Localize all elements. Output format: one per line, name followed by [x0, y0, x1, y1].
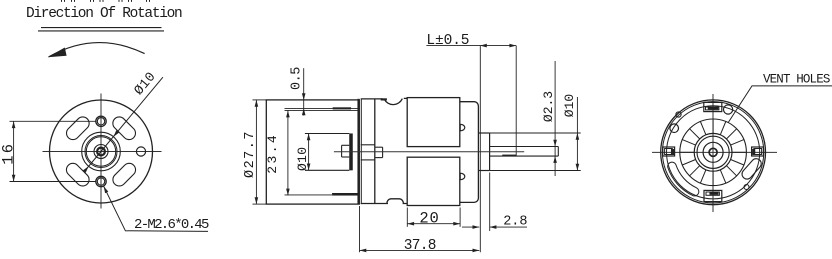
leader 2-M2.6 line — [104, 186, 208, 231]
title underline (double rule) — [41, 27, 162, 29]
dim 37.8 ext left — [359, 206, 361, 252]
vent slot SW — [64, 161, 92, 189]
motor front boss bottom — [361, 159, 375, 161]
side view centerline — [334, 151, 524, 153]
dim 23.4 line — [287, 111, 289, 196]
brush cap lower — [460, 173, 465, 180]
vent slot NE — [110, 114, 138, 142]
motor can front face — [374, 99, 376, 204]
dim 23.4 arrow up — [286, 111, 290, 118]
rear rim circle — [662, 102, 763, 203]
dim phi2.3 arrow lower — [553, 156, 557, 163]
dim phi10 shaft ext top — [490, 132, 581, 134]
svg-text:2.8: 2.8 — [503, 214, 527, 229]
leader 2-M2.6 arrow — [104, 186, 109, 193]
rear hole NW — [670, 124, 679, 133]
svg-text:VENT HOLES: VENT HOLES — [763, 73, 830, 87]
dim 20 line — [407, 223, 460, 225]
dim phi27.7 arrow up — [255, 100, 259, 107]
front housing outer circle (dia 27.7) — [50, 100, 153, 203]
shaft flat end / L extension — [515, 46, 517, 157]
direction-of-rotation arc arrow — [49, 43, 145, 57]
dim 0.5 line — [303, 68, 305, 115]
front bearing circle — [94, 145, 108, 159]
crimp tab W — [663, 147, 675, 156]
crimp tab S — [704, 190, 722, 201]
rear hole NE — [724, 105, 733, 114]
dim 23.4 arrow down — [286, 189, 290, 196]
motor front boss top — [361, 144, 375, 146]
gearbox housing outline — [266, 100, 359, 204]
motor flange line — [360, 99, 362, 204]
dim 2.8 arrow right — [490, 225, 497, 229]
dim phi10 arrow SW — [83, 166, 89, 172]
svg-text:Ø10: Ø10 — [295, 147, 310, 171]
dim phi10 gearbox arrow up — [307, 134, 311, 141]
end face extension line — [479, 46, 481, 253]
dim phi10 shaft arrow down — [576, 164, 580, 171]
dim 2.8 line left — [462, 226, 479, 228]
dim 0.5 arrow upper — [302, 93, 306, 100]
rear center hole — [709, 148, 717, 156]
crimp tab N — [704, 102, 722, 111]
rear notch NW — [676, 112, 681, 117]
dim phi10 shaft arrow up — [576, 133, 580, 140]
gearbox tab upper — [333, 107, 351, 109]
can neck bottom edge — [361, 203, 388, 205]
shaft bottom edge — [490, 155, 559, 157]
dim phi10 gearbox line — [308, 134, 310, 171]
svg-text:2-M2.6*0.45: 2-M2.6*0.45 — [134, 217, 209, 233]
dim L+-0.5 line — [426, 45, 516, 47]
dim 2.8 arrow left — [473, 225, 480, 229]
dim 16 arrow down — [12, 175, 16, 182]
rear hub ring inner — [697, 136, 729, 168]
can bottom notch — [387, 199, 407, 204]
mounting hole M2.6 top inner — [97, 118, 104, 125]
dim phi2.3 arrow upper — [553, 140, 557, 147]
svg-text:0.5: 0.5 — [290, 67, 305, 90]
vent slot NW — [64, 114, 92, 142]
shaft flat (thick) — [502, 155, 516, 157]
rear notch SE — [744, 185, 749, 190]
dim L+-0.5 arrow right — [509, 44, 516, 48]
svg-text:Ø10: Ø10 — [132, 70, 160, 99]
gearbox cover line lower — [285, 194, 360, 196]
dim phi10 shaft ext bottom — [490, 170, 581, 172]
dim 20 ext right — [459, 208, 461, 227]
internal bearing stub — [341, 145, 343, 157]
can top edge short — [404, 97, 407, 99]
end bell outline — [460, 102, 479, 203]
rear spoke ring — [680, 119, 747, 186]
dim phi2.3 line — [554, 61, 556, 176]
svg-text:Ø2.3: Ø2.3 — [541, 91, 556, 122]
svg-text:L±0.5: L±0.5 — [426, 33, 469, 49]
dim phi27.7 line — [255, 100, 257, 204]
dim phi27.7 ext bottom — [253, 203, 267, 205]
vent slot SE — [110, 161, 138, 189]
svg-text:20: 20 — [419, 209, 439, 227]
rear boss face — [489, 133, 491, 171]
dim phi10 arrow NE — [113, 130, 119, 136]
dim 2.8 line right — [490, 226, 527, 228]
rear boss top — [478, 132, 489, 134]
rear boss bottom — [478, 170, 489, 172]
svg-text:Ø27.7: Ø27.7 — [243, 130, 258, 178]
rear rim inner circle — [667, 106, 760, 199]
front view vertical centerline — [100, 94, 102, 209]
dim 37.8 arrow right — [473, 249, 480, 253]
dim 20 arrow right — [453, 222, 460, 226]
internal boss face (thick) — [349, 134, 352, 171]
can top notch — [384, 99, 402, 105]
dim phi10 gearbox arrow down — [307, 164, 311, 171]
gearbox cover line upper a — [285, 107, 360, 109]
brush cap upper — [460, 124, 465, 131]
clipped text remnants above title — [61, 0, 63, 2]
vent holes leader — [728, 86, 832, 123]
output shaft circle dia 2.3 — [97, 148, 105, 156]
dim 37.8 line — [360, 249, 480, 251]
gearbox cover line lower b — [332, 192, 359, 194]
dim 37.8 arrow left — [360, 249, 367, 253]
svg-text:23.4: 23.4 — [265, 133, 280, 174]
dim 16 arrow up — [12, 121, 16, 128]
internal boss bottom edge — [305, 169, 349, 171]
svg-text:Ø10: Ø10 — [562, 94, 577, 117]
rear bearing circle — [703, 142, 723, 162]
dim phi10 shaft line — [576, 97, 578, 171]
shaft tip — [557, 147, 559, 157]
dim 20 ext left — [406, 208, 408, 227]
front boss circle dia 10 — [82, 132, 121, 171]
gearbox tab lower — [332, 194, 358, 196]
gearbox cover line upper b — [285, 109, 360, 111]
rear vent slot ESE — [740, 157, 763, 182]
front raised ring inner — [86, 137, 115, 166]
rear view horizontal centerline — [652, 151, 777, 153]
dim 16 extension line top — [10, 120, 96, 122]
mounting hole M2.6 top outer — [96, 116, 106, 126]
svg-text:37.8: 37.8 — [404, 238, 436, 254]
mounting hole M2.6 bottom inner — [97, 178, 104, 185]
rear outer circle — [661, 100, 766, 205]
rear spokes (16) — [732, 151, 746, 153]
index hole east — [136, 147, 145, 156]
front raised ring outer — [85, 136, 117, 168]
svg-text:16: 16 — [0, 142, 18, 165]
dim 20 arrow left — [407, 222, 414, 226]
dim phi27.7 ext top — [253, 99, 267, 101]
dim phi10 leader line — [84, 77, 163, 171]
mounting hole M2.6 bottom outer — [96, 176, 106, 186]
crimp tab E — [752, 147, 764, 156]
svg-text:Direction Of Rotation: Direction Of Rotation — [26, 6, 182, 22]
rear vent slot SW (arc) — [668, 162, 699, 196]
dim 2.8 ext boss — [489, 173, 491, 232]
dim 16 extension line bottom — [10, 181, 96, 183]
can neck top edge — [361, 98, 383, 100]
gearbox back wall (thick) — [358, 99, 360, 204]
dim 16 line — [13, 121, 15, 181]
rear view vertical centerline — [712, 94, 714, 212]
internal boss top edge — [305, 133, 349, 135]
dim 0.5 arrow lower — [302, 108, 306, 115]
front view horizontal centerline — [43, 151, 162, 153]
can barrel upper rect — [407, 98, 460, 147]
dim phi27.7 arrow down — [255, 197, 259, 204]
can barrel lower rect — [407, 157, 460, 205]
dim L+-0.5 arrow left — [480, 44, 487, 48]
front bushing — [375, 146, 382, 148]
shaft top edge — [490, 146, 559, 148]
rear hub ring outer — [694, 133, 732, 171]
